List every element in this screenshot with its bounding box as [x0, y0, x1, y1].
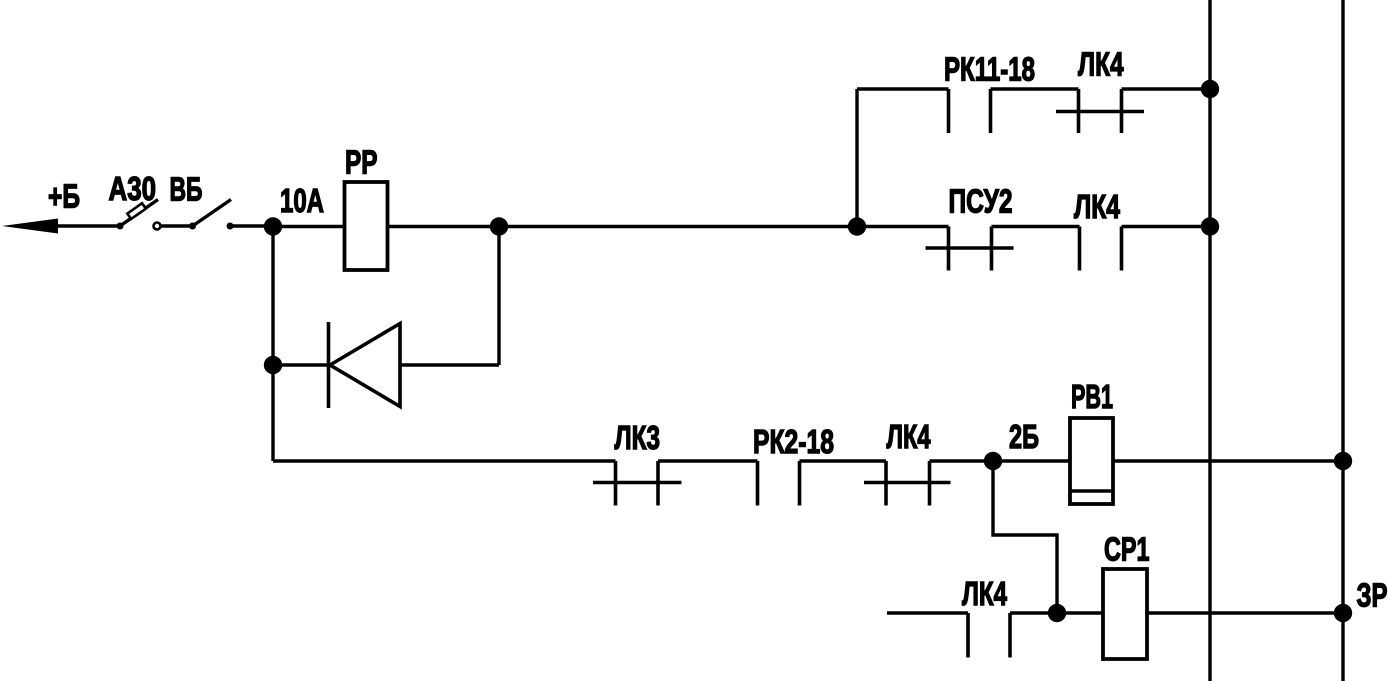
svg-text:ВБ: ВБ	[170, 171, 203, 208]
svg-text:ЗР: ЗР	[1357, 577, 1388, 614]
wire	[855, 89, 858, 227]
wire	[233, 224, 274, 227]
wire	[58, 224, 120, 227]
bus 1	[1208, 0, 1211, 681]
svg-text:ПСУ2: ПСУ2	[949, 183, 1013, 220]
wire	[497, 227, 500, 366]
node 2Б junction	[984, 418, 1039, 470]
junction	[1048, 604, 1066, 622]
relay coil РВ1 (time relay)	[1070, 378, 1113, 504]
svg-text:ЛК4: ЛК4	[887, 418, 931, 455]
svg-text:+Б: +Б	[48, 178, 80, 215]
wire	[993, 459, 1070, 462]
contact ПСУ2 (closed)	[926, 183, 1014, 271]
contact ЛК4 (closed)	[1056, 46, 1144, 134]
svg-text:2Б: 2Б	[1009, 418, 1039, 455]
wire	[273, 363, 327, 366]
contact РК11-18 (open)	[944, 51, 1035, 134]
junction	[1201, 217, 1219, 235]
wire	[273, 225, 344, 228]
wire	[1057, 611, 1103, 614]
contact ЛК3 (closed)	[593, 419, 682, 506]
svg-text:10А: 10А	[280, 182, 324, 219]
wire	[991, 87, 1079, 90]
relay coil РР	[345, 144, 388, 271]
wire	[887, 611, 968, 614]
wire	[1122, 225, 1211, 228]
wire	[992, 225, 1080, 228]
wire	[273, 459, 616, 462]
wire	[1122, 87, 1211, 90]
wire	[499, 225, 857, 228]
junction	[848, 217, 866, 235]
contact РК2-18 (open)	[753, 423, 834, 506]
svg-text:ЛК4: ЛК4	[962, 575, 1007, 612]
relay coil СР1	[1103, 531, 1150, 659]
svg-text:СР1: СР1	[1104, 531, 1150, 568]
svg-text:А30: А30	[109, 170, 157, 207]
svg-text:ЛК4: ЛК4	[1074, 188, 1120, 225]
wire	[271, 365, 274, 461]
svg-text:РК2-18: РК2-18	[753, 423, 834, 460]
contact ЛК4 (open)	[1074, 188, 1122, 271]
wire	[857, 87, 949, 90]
node 10А junction	[264, 182, 324, 236]
wire	[1010, 611, 1057, 614]
node +Б supply arrow	[2, 178, 80, 234]
breaker A30	[109, 170, 161, 230]
wire	[857, 225, 949, 228]
wire	[800, 459, 887, 462]
wire	[930, 459, 994, 462]
wire	[658, 459, 758, 462]
svg-text:РВ1: РВ1	[1071, 378, 1113, 415]
bus 2	[1341, 0, 1344, 681]
wire	[162, 224, 192, 227]
contact ЛК4 (closed)	[864, 418, 951, 506]
wire	[388, 225, 500, 228]
diode VD	[329, 322, 401, 408]
wire	[1147, 611, 1343, 614]
junction	[1201, 80, 1219, 98]
svg-text:ЛК4: ЛК4	[1078, 46, 1124, 83]
wire	[271, 227, 274, 366]
junction	[264, 356, 282, 374]
wire	[993, 461, 1057, 613]
svg-text:РР: РР	[345, 144, 378, 181]
svg-text:ЛК3: ЛК3	[615, 419, 661, 456]
wire	[1113, 459, 1343, 462]
contact ЛК4 (open)	[962, 575, 1010, 658]
svg-text:РК11-18: РК11-18	[944, 51, 1035, 88]
junction	[1334, 452, 1352, 470]
switch ВБ	[170, 171, 234, 230]
wire	[400, 363, 499, 366]
junction	[490, 217, 508, 235]
node ЗР junction	[1334, 577, 1388, 623]
